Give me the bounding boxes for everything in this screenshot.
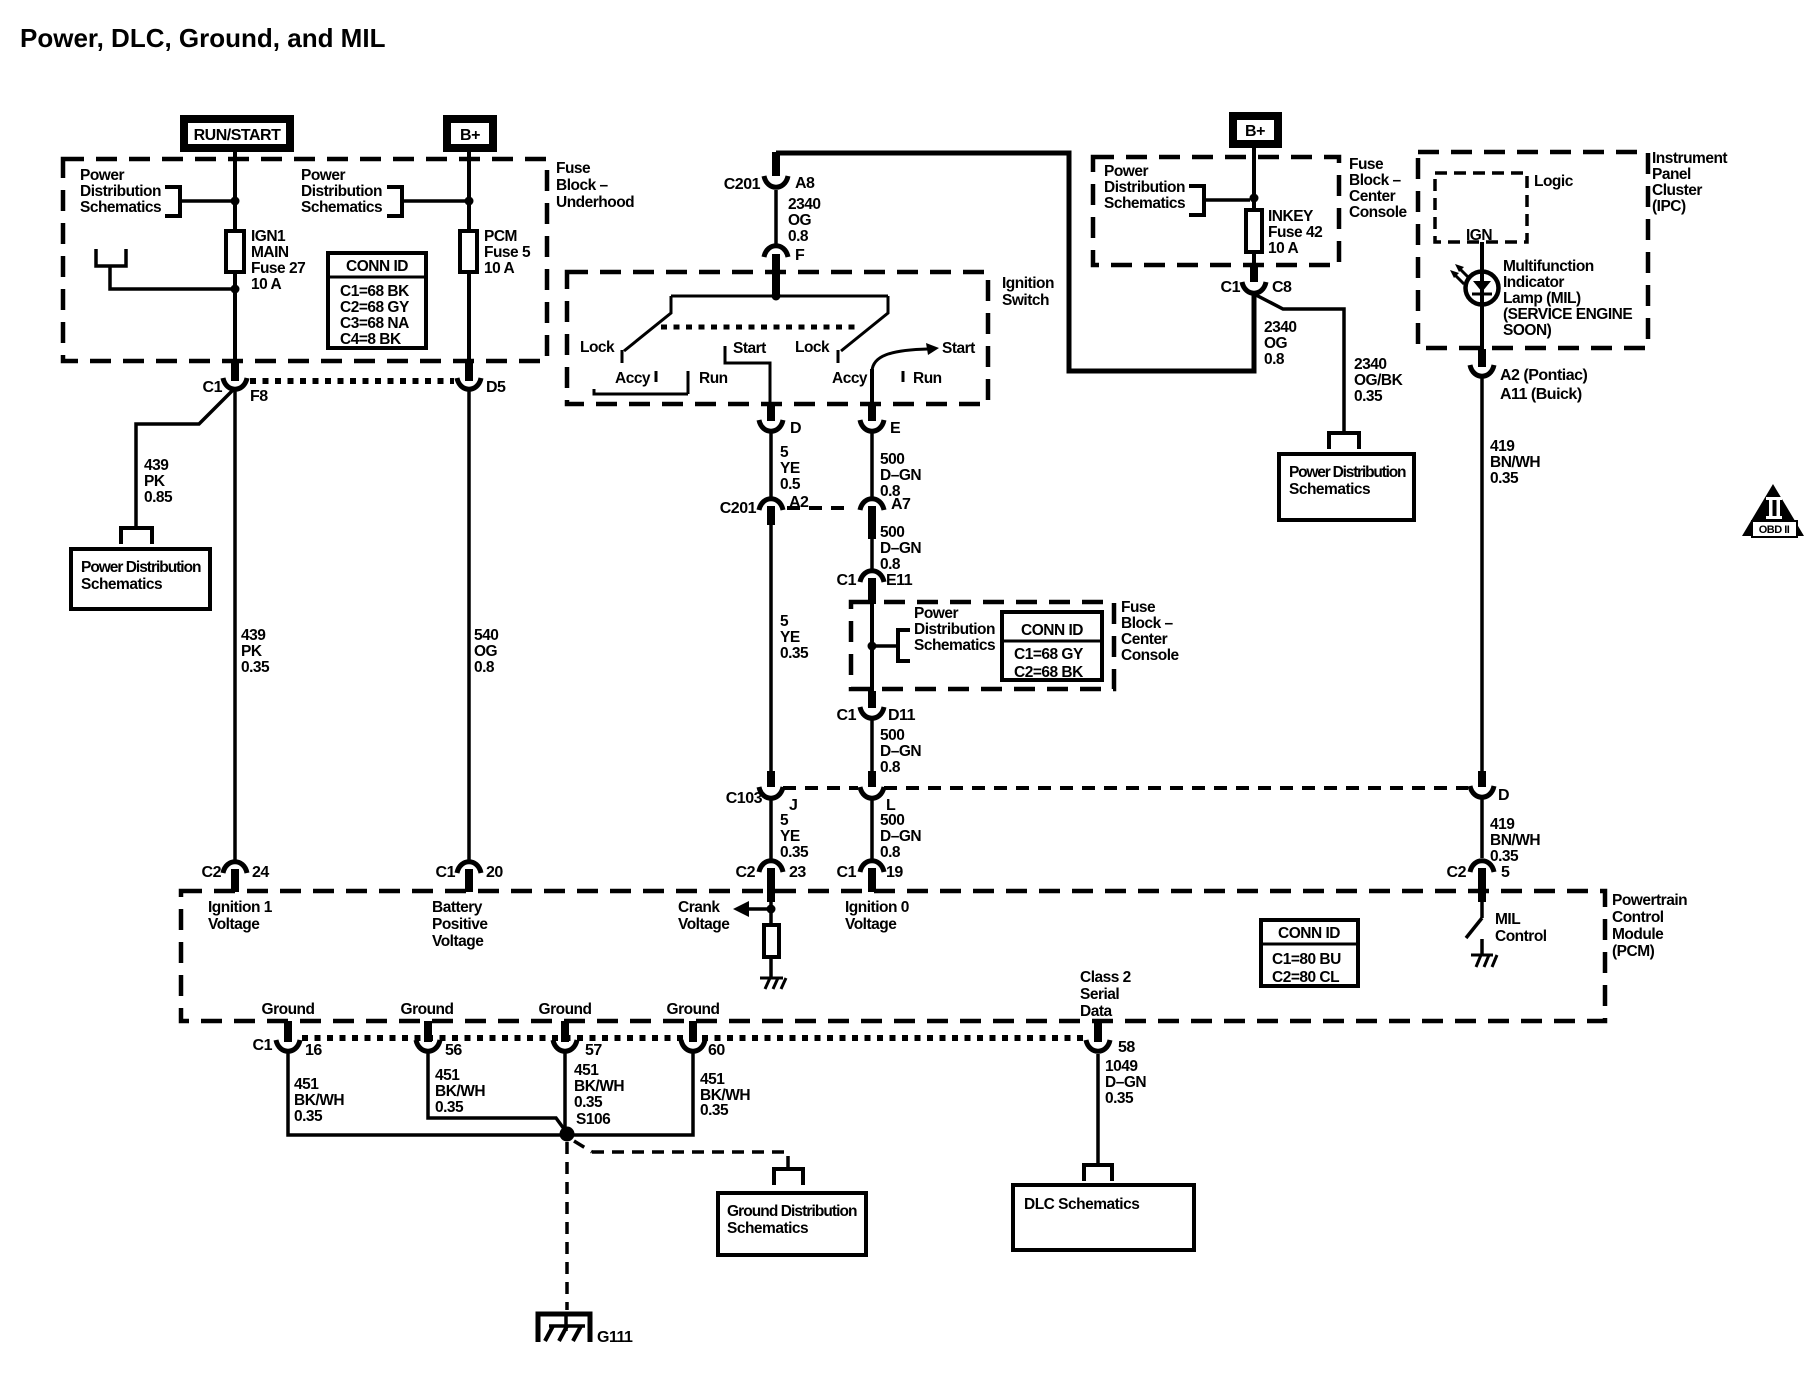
label PCM Fuse 5 10 A — [484, 228, 531, 277]
wire mil switch to ground — [1480, 939, 1484, 954]
svg-text:Power Distribution: Power Distribution — [81, 559, 201, 576]
label 451 BK/WH 0.35 S106 third — [574, 1062, 624, 1128]
svg-text:Fuse: Fuse — [1121, 599, 1156, 616]
connector tie line pcm grounds — [302, 1035, 1084, 1041]
label INKEY Fuse 42 10 A — [1268, 208, 1322, 257]
pin stub D11 — [868, 691, 876, 708]
svg-text:C1: C1 — [837, 707, 857, 724]
svg-text:Schematics: Schematics — [301, 199, 382, 216]
pin stub 19 — [868, 868, 876, 892]
wire ground 56 — [428, 1052, 567, 1133]
label 419 BN/WH 0.35 lower — [1490, 816, 1540, 865]
conn id table console — [1002, 612, 1102, 681]
svg-text:D–GN: D–GN — [880, 467, 921, 484]
svg-text:5: 5 — [780, 812, 789, 829]
wire accy pole to E — [870, 369, 874, 404]
lock position tick right — [837, 350, 840, 363]
svg-text:Ground Distribution: Ground Distribution — [727, 1203, 857, 1220]
node junction INKEY tap — [1250, 194, 1259, 203]
crank arrow line — [737, 907, 771, 911]
svg-text:Distribution: Distribution — [301, 183, 382, 200]
wire resistor to ground — [769, 957, 773, 978]
svg-text:540: 540 — [474, 627, 498, 644]
wire RUN/START to fuse — [233, 152, 237, 231]
svg-text:Fuse 27: Fuse 27 — [251, 260, 305, 277]
wire 1049 D-GN — [1096, 1054, 1100, 1164]
svg-text:500: 500 — [880, 727, 904, 744]
connector F — [764, 246, 788, 257]
lamp MIL circle — [1466, 272, 1499, 305]
svg-text:Multifunction: Multifunction — [1503, 258, 1594, 275]
pin stub 56 — [424, 1021, 432, 1042]
svg-text:Distribution: Distribution — [1104, 179, 1185, 196]
svg-text:Run: Run — [699, 370, 728, 387]
svg-text:Crank: Crank — [678, 899, 720, 916]
svg-text:10 A: 10 A — [484, 260, 514, 277]
svg-text:57: 57 — [585, 1042, 602, 1059]
run contact line left — [594, 389, 688, 394]
svg-text:Schematics: Schematics — [81, 576, 162, 593]
svg-text:YE: YE — [780, 460, 800, 477]
label 451 BK/WH 0.35 second — [435, 1067, 485, 1116]
bracket above schematics box left — [121, 528, 152, 544]
svg-text:Power, DLC, Ground, and MIL: Power, DLC, Ground, and MIL — [20, 23, 386, 53]
svg-text:D–GN: D–GN — [880, 828, 921, 845]
svg-text:C1=68 BK: C1=68 BK — [340, 283, 410, 300]
svg-text:BK/WH: BK/WH — [574, 1078, 624, 1095]
label power distribution schematics left — [80, 167, 161, 216]
fuse IGN1 MAIN Fuse 27 10A — [226, 231, 244, 272]
svg-text:Data: Data — [1080, 1003, 1112, 1020]
svg-text:C1=80 BU: C1=80 BU — [1272, 951, 1341, 968]
connector C2 23 — [759, 861, 783, 872]
lamp arrow 2 — [1450, 270, 1464, 284]
svg-text:19: 19 — [886, 864, 903, 881]
wire dashed S106 to ground distribution — [574, 1141, 592, 1152]
svg-text:Positive: Positive — [432, 916, 488, 933]
wire B+ feed to ignition path — [776, 153, 1254, 371]
svg-text:Cluster: Cluster — [1652, 182, 1702, 199]
connector 56 — [416, 1040, 440, 1051]
connector L — [860, 787, 884, 798]
svg-text:Start: Start — [942, 340, 975, 357]
svg-text:D: D — [790, 420, 801, 437]
svg-text:Power: Power — [301, 167, 345, 184]
pin stub E11 — [868, 578, 876, 604]
svg-text:Power: Power — [80, 167, 124, 184]
node junction below IGN1 fuse — [231, 285, 240, 294]
svg-text:D11: D11 — [888, 707, 916, 724]
label Fuse Block Center Console 2 — [1121, 599, 1180, 664]
label Battery Positive Voltage — [432, 899, 488, 950]
label 451 BK/WH 0.35 fourth — [700, 1071, 750, 1119]
instrument panel cluster dashed box — [1418, 152, 1648, 348]
svg-text:Voltage: Voltage — [432, 933, 484, 950]
svg-text:B+: B+ — [1245, 123, 1265, 140]
svg-text:Battery: Battery — [432, 899, 483, 916]
label 5 YE 0.35 upper — [780, 613, 809, 662]
svg-text:YE: YE — [780, 828, 800, 845]
pin stub A2 — [767, 506, 775, 525]
svg-text:Voltage: Voltage — [208, 916, 260, 933]
svg-text:0.35: 0.35 — [1105, 1090, 1134, 1107]
wire A8 to F — [774, 190, 778, 247]
svg-text:Powertrain: Powertrain — [1612, 892, 1687, 909]
obd ii symbol — [1742, 484, 1804, 537]
svg-text:C3=68 NA: C3=68 NA — [340, 315, 409, 332]
bracket above dlc box — [1084, 1165, 1112, 1181]
label 2340 OG 0.8 console — [1264, 319, 1296, 368]
node junction B+ tap — [465, 197, 474, 206]
power box B+ underhood — [443, 115, 497, 152]
label power distribution schematics console 2 — [914, 605, 995, 654]
connector 58 — [1086, 1040, 1110, 1051]
svg-text:23: 23 — [789, 864, 806, 881]
svg-text:0.8: 0.8 — [788, 228, 809, 245]
svg-text:BN/WH: BN/WH — [1490, 832, 1540, 849]
ignition switch dashed box — [567, 272, 988, 404]
run tick left — [687, 371, 690, 394]
svg-text:Power: Power — [1104, 163, 1148, 180]
svg-text:24: 24 — [252, 864, 269, 881]
svg-text:BN/WH: BN/WH — [1490, 454, 1540, 471]
svg-text:0.35: 0.35 — [780, 844, 809, 861]
svg-text:Block –: Block – — [1349, 172, 1402, 189]
pin stub 20 — [465, 869, 473, 892]
svg-text:PK: PK — [241, 643, 263, 660]
svg-text:451: 451 — [294, 1076, 319, 1093]
svg-text:A7: A7 — [891, 496, 911, 513]
pin stub mil control — [1478, 891, 1486, 902]
svg-text:J: J — [789, 797, 797, 814]
connector tie line L to D — [884, 786, 1468, 790]
svg-text:Serial: Serial — [1080, 986, 1119, 1003]
label Ignition Switch — [1002, 275, 1054, 309]
bracket to schematics mid — [387, 187, 402, 216]
lamp diode bar — [1472, 293, 1492, 296]
fuse block center console 2 dashed box — [851, 602, 1114, 689]
power box B+ console — [1229, 112, 1282, 148]
svg-text:419: 419 — [1490, 438, 1515, 455]
svg-text:Center: Center — [1121, 631, 1168, 648]
svg-text:CONN ID: CONN ID — [1278, 925, 1340, 942]
svg-text:BK/WH: BK/WH — [294, 1092, 344, 1109]
connector A7 — [860, 499, 884, 510]
pin stub 60 — [689, 1021, 697, 1042]
bracket to schematics console — [1189, 186, 1204, 215]
svg-text:419: 419 — [1490, 816, 1515, 833]
connector C1 D11 — [860, 707, 884, 718]
label multifunction indicator lamp MIL — [1503, 258, 1632, 339]
wire IGN to lamp — [1480, 242, 1484, 349]
wire INKEY fuse to C8 — [1252, 252, 1256, 266]
connector C1 16 — [276, 1040, 300, 1051]
connector A2 Pontiac A11 Buick — [1470, 365, 1494, 376]
svg-text:C1: C1 — [436, 864, 456, 881]
connector C1 C8 — [1242, 282, 1266, 293]
svg-text:500: 500 — [880, 524, 904, 541]
wire console tap — [872, 644, 898, 648]
lamp diode triangle — [1473, 281, 1491, 292]
lamp arrow 1 — [1455, 264, 1469, 278]
switch arm mil control — [1466, 918, 1482, 938]
svg-text:Instrument: Instrument — [1652, 150, 1727, 167]
svg-text:S106: S106 — [576, 1111, 611, 1128]
pin stub 57 — [561, 1021, 569, 1042]
svg-text:Indicator: Indicator — [1503, 274, 1564, 291]
label Fuse Block Center Console — [1349, 156, 1408, 221]
box power distribution schematics right — [1279, 454, 1414, 520]
connector C1 20 — [457, 862, 481, 873]
label 5 YE 0.35 lower — [780, 812, 809, 861]
svg-text:0.8: 0.8 — [474, 659, 495, 676]
power box RUN/START — [180, 115, 294, 152]
svg-text:C1: C1 — [203, 379, 223, 396]
wire MIL 419 BN/WH — [1480, 377, 1484, 771]
svg-text:Switch: Switch — [1002, 292, 1049, 309]
pin stub L — [868, 771, 876, 787]
wire bracket tap left — [180, 199, 231, 203]
svg-text:G111: G111 — [597, 1329, 633, 1346]
svg-text:0.35: 0.35 — [1354, 388, 1383, 405]
wire left switch arm — [624, 296, 671, 351]
svg-text:(IPC): (IPC) — [1652, 198, 1686, 215]
svg-text:Distribution: Distribution — [80, 183, 161, 200]
connector 60 — [681, 1040, 705, 1051]
label Instrument Panel Cluster IPC — [1652, 150, 1727, 215]
svg-text:0.35: 0.35 — [241, 659, 270, 676]
connector E ignition — [860, 420, 884, 431]
pin stub 58 — [1094, 1021, 1102, 1042]
logic dashed box — [1435, 173, 1527, 242]
svg-text:Ground: Ground — [667, 1001, 720, 1018]
connector D5 — [457, 378, 481, 389]
node junction RUN/START tap — [231, 197, 240, 206]
ground crank — [760, 978, 786, 989]
svg-text:A2 (Pontiac): A2 (Pontiac) — [1500, 367, 1588, 384]
pin stub crank — [767, 891, 775, 902]
svg-text:0.35: 0.35 — [435, 1099, 464, 1116]
svg-text:439: 439 — [241, 627, 266, 644]
resistor crank pullup — [764, 925, 779, 957]
svg-text:Lock: Lock — [795, 339, 830, 356]
pin stub J — [767, 771, 775, 787]
wire crank internal — [769, 900, 773, 925]
pin stub 5 — [1478, 868, 1486, 892]
svg-text:0.35: 0.35 — [294, 1108, 323, 1125]
svg-text:Ignition 1: Ignition 1 — [208, 899, 273, 916]
svg-text:F: F — [795, 247, 805, 264]
svg-text:C1: C1 — [837, 864, 857, 881]
svg-text:OG: OG — [1264, 335, 1288, 352]
svg-text:Ground: Ground — [262, 1001, 315, 1018]
powertrain control module dashed box — [181, 891, 1605, 1021]
wire D11 to L — [870, 720, 874, 771]
connector D mil — [1470, 786, 1494, 797]
svg-text:10 A: 10 A — [251, 276, 281, 293]
svg-text:451: 451 — [700, 1071, 725, 1088]
svg-text:D5: D5 — [486, 379, 506, 396]
svg-text:Control: Control — [1495, 928, 1547, 945]
svg-text:1049: 1049 — [1105, 1058, 1138, 1075]
svg-text:56: 56 — [445, 1042, 462, 1059]
label 500 D-GN 0.8 third — [880, 727, 921, 776]
connector tie line J to L — [783, 786, 858, 790]
run tick right — [902, 371, 905, 382]
wire through console box — [870, 602, 874, 691]
svg-text:Fuse 42: Fuse 42 — [1268, 224, 1322, 241]
svg-text:OBD II: OBD II — [1759, 524, 1790, 536]
wire fuse to box edge — [233, 272, 237, 361]
svg-text:C103: C103 — [726, 790, 763, 807]
wire right switch arm — [841, 296, 888, 351]
bracket to schematics console 2 — [898, 630, 910, 661]
lock position tick left — [621, 350, 624, 363]
svg-text:C201: C201 — [720, 500, 757, 517]
wire mil control internal — [1480, 900, 1484, 918]
svg-text:Block –: Block – — [556, 177, 609, 194]
svg-text:PCM: PCM — [484, 228, 517, 245]
label MIL Control — [1495, 911, 1547, 945]
pin stub D — [767, 404, 775, 421]
pin stub A7 — [868, 506, 876, 539]
wire cup branch — [110, 266, 232, 289]
svg-text:OG: OG — [474, 643, 498, 660]
svg-text:OG: OG — [788, 212, 812, 229]
label 2340 OG 0.8 — [788, 196, 820, 245]
svg-text:Console: Console — [1349, 204, 1408, 221]
svg-text:Module: Module — [1612, 926, 1664, 943]
label 439 PK 0.35 — [241, 627, 270, 676]
wire C8 branch 2340 OG/BK — [1254, 294, 1344, 431]
switch arm curve to Start right — [872, 349, 928, 371]
fuse PCM Fuse 5 10A — [460, 231, 477, 272]
svg-text:Console: Console — [1121, 647, 1180, 664]
bracket above schematics box right — [1329, 433, 1359, 449]
wire F8 branch diagonal — [136, 390, 233, 528]
svg-text:MAIN: MAIN — [251, 244, 289, 261]
svg-text:Lock: Lock — [580, 339, 615, 356]
wire D to A2 row — [769, 433, 773, 500]
svg-text:C1: C1 — [837, 572, 857, 589]
svg-text:439: 439 — [144, 457, 169, 474]
svg-text:Control: Control — [1612, 909, 1664, 926]
svg-text:D–GN: D–GN — [880, 743, 921, 760]
svg-text:E11: E11 — [886, 572, 913, 589]
svg-text:Accy: Accy — [832, 370, 868, 387]
pin stub A8 — [772, 152, 780, 176]
svg-text:SOON): SOON) — [1503, 322, 1552, 339]
svg-text:0.35: 0.35 — [1490, 848, 1519, 865]
svg-text:INKEY: INKEY — [1268, 208, 1314, 225]
svg-text:OG/BK: OG/BK — [1354, 372, 1404, 389]
pin stub 23 — [767, 868, 775, 892]
node splice S106 — [560, 1127, 575, 1142]
svg-text:Fuse 5: Fuse 5 — [484, 244, 531, 261]
wire B+ to fuse — [467, 152, 471, 231]
wire A2 to J — [769, 525, 773, 771]
svg-text:2340: 2340 — [1264, 319, 1296, 336]
svg-text:A8: A8 — [795, 175, 815, 192]
wire bracket tap console — [1204, 198, 1250, 202]
svg-text:Ignition 0: Ignition 0 — [845, 899, 909, 916]
accy tick left — [655, 371, 658, 382]
conn id table pcm — [1261, 920, 1358, 986]
svg-text:500: 500 — [880, 812, 904, 829]
svg-text:E: E — [890, 420, 901, 437]
label Fuse Block Underhood — [556, 160, 634, 211]
svg-text:Power Distribution: Power Distribution — [1289, 464, 1406, 481]
connector C1 E11 — [860, 571, 884, 582]
node crank junction — [767, 905, 776, 914]
pin stub 16 — [284, 1021, 292, 1042]
svg-text:16: 16 — [305, 1042, 322, 1059]
label 1049 D-GN 0.35 — [1105, 1058, 1146, 1107]
label 5 YE 0.5 — [780, 444, 801, 493]
svg-text:IGN: IGN — [1466, 227, 1492, 244]
svg-text:BK/WH: BK/WH — [435, 1083, 485, 1100]
wire 439 PK to PCM — [233, 390, 237, 860]
svg-text:C2=68 GY: C2=68 GY — [340, 299, 410, 316]
svg-text:RUN/START: RUN/START — [194, 127, 281, 144]
wire J to 23 — [769, 800, 773, 859]
pin stub F8 — [231, 361, 239, 381]
svg-text:D: D — [1498, 787, 1509, 804]
svg-text:Accy: Accy — [615, 370, 651, 387]
label Crank Voltage — [678, 899, 730, 933]
terminal cup symbol — [96, 249, 126, 266]
svg-text:C4=8 BK: C4=8 BK — [340, 331, 402, 348]
label power distribution schematics console — [1104, 163, 1185, 212]
connector C103 J — [759, 787, 783, 798]
label 419 BN/WH 0.35 upper — [1490, 438, 1540, 487]
svg-text:0.5: 0.5 — [780, 476, 801, 493]
svg-text:Run: Run — [913, 370, 942, 387]
svg-text:Fuse: Fuse — [1349, 156, 1384, 173]
svg-text:(SERVICE ENGINE: (SERVICE ENGINE — [1503, 306, 1632, 323]
svg-text:10 A: 10 A — [1268, 240, 1298, 257]
connector C2 5 — [1470, 861, 1494, 872]
svg-text:5: 5 — [1501, 864, 1510, 881]
svg-text:0.35: 0.35 — [700, 1102, 729, 1119]
svg-text:C8: C8 — [1272, 279, 1292, 296]
svg-text:0.35: 0.35 — [574, 1094, 603, 1111]
svg-text:0.8: 0.8 — [880, 759, 901, 776]
pin stub E — [868, 404, 876, 421]
pin stub 24 — [231, 869, 239, 892]
svg-text:Ground: Ground — [401, 1001, 454, 1018]
svg-text:2340: 2340 — [1354, 356, 1386, 373]
label 500 D-GN 0.8 fourth — [880, 812, 921, 861]
svg-text:CONN ID: CONN ID — [346, 258, 408, 275]
svg-text:Lamp (MIL): Lamp (MIL) — [1503, 290, 1581, 307]
wire 540 OG to PCM — [467, 390, 471, 860]
svg-text:Voltage: Voltage — [678, 916, 730, 933]
svg-text:Schematics: Schematics — [727, 1220, 808, 1237]
wire B+ console to fuse — [1252, 148, 1256, 210]
svg-text:Class 2: Class 2 — [1080, 969, 1131, 986]
box power distribution schematics left — [71, 549, 210, 609]
box dlc schematics — [1013, 1185, 1194, 1250]
wire L to 19 — [870, 800, 874, 859]
label 451 BK/WH 0.35 first — [294, 1076, 344, 1125]
label 500 D-GN 0.8 second — [880, 524, 921, 573]
svg-text:Start: Start — [733, 340, 766, 357]
svg-text:451: 451 — [574, 1062, 599, 1079]
svg-text:MIL: MIL — [1495, 911, 1520, 928]
fuse block underhood dashed box — [63, 159, 547, 361]
svg-text:Schematics: Schematics — [914, 637, 995, 654]
